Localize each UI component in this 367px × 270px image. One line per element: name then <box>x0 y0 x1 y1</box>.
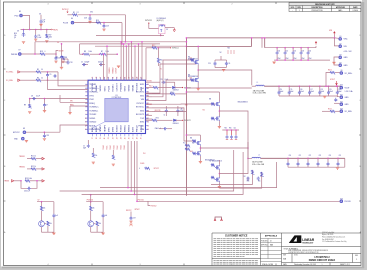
svg-text:CONVERTER WITH VERY LOW DCR IN: CONVERTER WITH VERY LOW DCR INDUCTOR <box>288 252 318 254</box>
resistor R30 below IC <box>92 153 95 158</box>
svg-text:RUN/SHDN: RUN/SHDN <box>89 129 100 131</box>
ground Q3 <box>52 233 55 235</box>
resistor R20 mode <box>62 56 65 60</box>
svg-text:100uF: 100uF <box>329 91 333 93</box>
svg-text:22uF: 22uF <box>286 58 289 60</box>
capacitor C29 PLLIN <box>103 23 105 25</box>
svg-text:C13: C13 <box>208 63 211 65</box>
wire D1 bottom to bus <box>160 34 162 36</box>
svg-text:DESCRIPTION: DESCRIPTION <box>312 7 324 9</box>
wire bg1 <box>152 80 194 101</box>
svg-text:CMDSH-3: CMDSH-3 <box>173 123 179 125</box>
svg-text:INTVCC: INTVCC <box>154 168 159 170</box>
ground bank2 <box>336 168 339 170</box>
wire bank2 bottom rail <box>288 166 345 168</box>
mosfet M7 <box>211 164 214 167</box>
svg-text:5V: 5V <box>166 29 168 31</box>
capacitor CB6 <box>337 158 339 160</box>
svg-text:3: 3 <box>140 264 141 266</box>
svg-text:30: 30 <box>104 137 106 139</box>
wire VIN bank bottom rail <box>274 59 330 61</box>
resistor M2 gate <box>191 79 194 82</box>
resistor R31 below IC <box>112 155 115 160</box>
border tick marks <box>91 2 93 266</box>
wire boost1 <box>172 81 175 83</box>
svg-text:31: 31 <box>108 137 110 139</box>
svg-text:100uF: 100uF <box>280 91 284 93</box>
svg-text:10k: 10k <box>99 223 102 225</box>
net flag INTVCC1 <box>148 23 149 24</box>
svg-text:C2: C2 <box>164 114 166 116</box>
capacitor C33 extvcc <box>43 132 45 134</box>
svg-text:E6: E6 <box>71 18 73 20</box>
capacitor C12 above IC <box>61 44 63 56</box>
svg-text:34: 34 <box>120 137 122 139</box>
svg-text:SHEET 1 OF 1: SHEET 1 OF 1 <box>340 264 350 266</box>
net flag VIN bank <box>315 42 317 45</box>
wire sw3 node <box>200 147 202 149</box>
svg-text:C18: C18 <box>70 62 73 64</box>
svg-text:C15: C15 <box>290 89 293 91</box>
wire pgood long <box>137 200 340 202</box>
svg-text:R23 1.00k: R23 1.00k <box>25 178 32 180</box>
wire PGOOD to RUN bus <box>23 16 30 30</box>
turret E10 VO_SNS+ <box>340 72 343 75</box>
capacitor C7 <box>44 98 46 100</box>
svg-text:PGOOD1: PGOOD1 <box>87 200 94 202</box>
svg-text:EXTVCC: EXTVCC <box>13 132 21 134</box>
svg-text:R22 1k: R22 1k <box>31 166 36 168</box>
svg-text:1uF: 1uF <box>105 215 108 217</box>
svg-text:VOSNS2-: VOSNS2- <box>89 110 98 112</box>
svg-text:SNSD1: SNSD1 <box>100 84 102 92</box>
svg-text:SGND4: SGND4 <box>141 124 143 132</box>
svg-text:BOOST2: BOOST2 <box>147 104 153 106</box>
svg-text:C5: C5 <box>81 62 83 64</box>
capacitor C38 vout <box>334 102 340 104</box>
wire box right vertical <box>261 38 263 48</box>
svg-text:PGOOD1: PGOOD1 <box>138 199 144 201</box>
svg-text:VOSNS1-: VOSNS1- <box>89 92 98 94</box>
resistor M3 gate <box>211 103 214 106</box>
turret E7 MODE <box>19 53 22 56</box>
svg-text:JK: JK <box>270 240 272 242</box>
svg-text:INTVCC: INTVCC <box>62 9 69 11</box>
ground R17 <box>45 41 48 43</box>
svg-text:C26: C26 <box>38 35 41 37</box>
svg-text:C30: C30 <box>278 51 281 53</box>
wire L1 out rail <box>252 85 256 87</box>
svg-text:C21: C21 <box>299 155 302 157</box>
resistor Q3 base <box>44 223 46 225</box>
svg-text:SNSD2: SNSD2 <box>129 84 131 92</box>
svg-text:GND: GND <box>344 57 349 59</box>
svg-text:PGOOD2: PGOOD2 <box>137 82 139 91</box>
wire ITH row <box>60 101 88 103</box>
svg-text:SIZE: SIZE <box>283 255 286 257</box>
svg-text:INTVCC1: INTVCC1 <box>145 20 152 22</box>
svg-text:VOSNS2+: VOSNS2+ <box>89 107 99 109</box>
turret E15 PGOOD <box>340 200 343 203</box>
svg-text:C32: C32 <box>294 51 297 53</box>
wire vosns+ row <box>20 71 36 73</box>
svg-text:35: 35 <box>124 137 126 139</box>
resistor Q3 collector <box>41 202 43 207</box>
svg-text:ITEMP2: ITEMP2 <box>104 124 106 132</box>
wire verticals from top rail <box>124 15 126 42</box>
ground cout bank <box>323 96 326 98</box>
capacitor CB1 <box>287 158 289 160</box>
capacitor C28 <box>89 15 91 17</box>
resistor R9 freq <box>29 98 31 100</box>
svg-text:10k: 10k <box>43 208 46 210</box>
svg-text:39: 39 <box>141 137 143 139</box>
wire IC right connections <box>146 92 153 94</box>
svg-text:TKSS3: TKSS3 <box>114 145 116 149</box>
turret E2 VIN <box>334 38 338 46</box>
svg-text:C23: C23 <box>319 155 322 157</box>
svg-text:C34 1uF: C34 1uF <box>24 191 30 193</box>
svg-text:E16: E16 <box>340 198 343 200</box>
svg-text:C16: C16 <box>300 89 303 91</box>
svg-text:SGND: SGND <box>140 163 144 165</box>
turret E13 GND <box>340 103 343 106</box>
svg-text:E3: E3 <box>340 55 342 57</box>
diode D2 CMDSH-3 <box>173 86 176 88</box>
svg-text:15k: 15k <box>95 155 97 157</box>
capacitor CIN2 <box>284 47 286 49</box>
svg-text:R15: R15 <box>225 128 228 130</box>
svg-text:E13: E13 <box>340 108 343 110</box>
turret E14 VO_SNS- <box>340 110 343 113</box>
svg-text:TRKSS: TRKSS <box>4 181 9 183</box>
svg-text:ITH1: ITH1 <box>70 101 73 103</box>
svg-text:R26 0: R26 0 <box>328 70 332 72</box>
wire sw2 <box>152 103 215 105</box>
svg-text:BSC010NE2LSI: BSC010NE2LSI <box>188 76 199 78</box>
svg-text:R13: R13 <box>228 48 231 50</box>
wire inner rail y46.4 <box>186 45 251 47</box>
svg-text:C17: C17 <box>310 89 313 91</box>
svg-text:GND: GND <box>345 97 350 99</box>
svg-text:PGOOD2: PGOOD2 <box>112 67 114 73</box>
svg-text:10: 10 <box>41 77 43 79</box>
capacitor C8 freq <box>30 98 88 100</box>
svg-text:0.1uF: 0.1uF <box>36 96 40 98</box>
svg-text:C19: C19 <box>329 89 332 91</box>
wire fet chain3 <box>199 135 201 140</box>
svg-text:4.5V - 14V: 4.5V - 14V <box>344 51 353 53</box>
svg-text:C22: C22 <box>234 128 237 130</box>
svg-text:R3 2: R3 2 <box>152 45 155 47</box>
svg-text:SWEN2: SWEN2 <box>129 124 131 132</box>
wire D1 out <box>165 27 172 29</box>
svg-text:100uF: 100uF <box>338 91 342 93</box>
wire VIN top rail <box>186 37 335 39</box>
svg-text:28: 28 <box>96 137 98 139</box>
resistor R27 <box>330 110 335 113</box>
svg-text:VO_SNS+: VO_SNS+ <box>345 73 353 75</box>
svg-text:SWEN1: SWEN1 <box>125 124 127 132</box>
svg-text:E9: E9 <box>341 70 343 72</box>
ground E9 <box>25 140 28 142</box>
svg-text:E4: E4 <box>340 62 342 64</box>
svg-text:R24: R24 <box>247 180 250 182</box>
svg-text:R27 0: R27 0 <box>328 108 332 110</box>
wire long bus 2 <box>82 152 244 194</box>
wire bg2 <box>152 111 186 113</box>
capacitor C26 <box>35 30 37 35</box>
wire Q3 bottom <box>41 227 43 233</box>
svg-text:E7: E7 <box>19 50 21 52</box>
wire nest corner 1 <box>211 170 252 185</box>
wire extvcc <box>26 131 60 133</box>
resistor R18 MODE <box>21 53 40 55</box>
svg-text:TKSS0: TKSS0 <box>103 145 105 149</box>
ground above IC <box>117 66 120 68</box>
wire VIN bank top rail <box>265 47 316 49</box>
svg-text:10k: 10k <box>49 223 52 225</box>
svg-text:PGOOD1: PGOOD1 <box>109 67 111 73</box>
turret E3 GND <box>339 56 342 59</box>
wire cout bank bottom rail <box>279 95 337 97</box>
svg-text:2: 2 <box>232 264 233 266</box>
capacitor C34 loop <box>21 181 27 189</box>
wire left rail vertical <box>185 38 187 196</box>
mosfet M4 <box>215 116 219 121</box>
svg-text:VO_SNS-: VO_SNS- <box>6 80 13 82</box>
output arrow row3 <box>42 180 44 182</box>
wire long bus 3 <box>100 162 277 188</box>
svg-text:ITH: ITH <box>143 153 145 155</box>
capacitor C32 mode <box>55 54 57 57</box>
svg-text:0.1uF: 0.1uF <box>38 37 42 39</box>
svg-text:INTVCC: INTVCC <box>135 209 140 211</box>
svg-text:C12: C12 <box>56 57 59 59</box>
svg-text:R9: R9 <box>24 105 26 107</box>
capacitor C9 <box>47 71 49 73</box>
svg-text:LTC3877EUJ: LTC3877EUJ <box>112 97 122 99</box>
svg-text:C28: C28 <box>84 18 87 20</box>
turret E4 GND <box>339 64 342 67</box>
svg-text:R10: R10 <box>160 60 163 62</box>
mid resistor stack right <box>185 145 190 148</box>
wire RUN bus <box>21 29 52 31</box>
wire Q4 bottom <box>90 227 92 233</box>
svg-text:TG2: TG2 <box>202 110 205 112</box>
resistor R23 <box>25 180 30 183</box>
svg-text:PRODUCTION: PRODUCTION <box>312 10 324 12</box>
svg-text:29: 29 <box>100 137 102 139</box>
svg-text:C7: C7 <box>46 105 48 107</box>
svg-text:100uF: 100uF <box>310 91 314 93</box>
svg-text:TECHNOLOGY: TECHNOLOGY <box>302 243 313 245</box>
Linear Technology logo <box>289 235 302 243</box>
svg-text:E2: E2 <box>340 43 342 45</box>
svg-text:33: 33 <box>116 137 118 139</box>
resistor R22 <box>31 168 36 171</box>
svg-text:SGND2: SGND2 <box>89 122 97 124</box>
svg-text:10k: 10k <box>92 208 95 210</box>
svg-text:E12: E12 <box>340 101 343 103</box>
capacitor CB4 <box>317 158 319 160</box>
resistor R10 vertical <box>158 47 160 49</box>
svg-text:SW2: SW2 <box>185 105 188 107</box>
wire nest corner 2 <box>220 172 262 188</box>
svg-text:R1: R1 <box>73 12 75 14</box>
turret E9 GND <box>22 137 25 140</box>
svg-text:R21 1k: R21 1k <box>31 156 36 158</box>
wire extvcc to IC <box>60 125 88 132</box>
svg-text:M7 BSC010NE2LSI: M7 BSC010NE2LSI <box>210 161 223 163</box>
svg-text:L2: L2 <box>258 154 260 156</box>
diode D3 CMDSH-3 <box>174 119 177 121</box>
svg-text:VIN: VIN <box>141 99 145 101</box>
svg-text:1000pF: 1000pF <box>85 62 90 64</box>
U1 exposed pad <box>105 98 128 121</box>
wire sw1 node to L1 <box>197 69 199 71</box>
capacitor Q4 rail <box>102 202 104 215</box>
svg-text:C20: C20 <box>289 155 292 157</box>
capacitor CIN3 <box>292 47 294 49</box>
svg-text:TRKSS1: TRKSS1 <box>19 156 25 158</box>
capacitor COUT6 <box>328 85 330 87</box>
svg-text:1uF: 1uF <box>56 215 59 217</box>
svg-text:1.5V / 10A: 1.5V / 10A <box>345 90 354 93</box>
svg-text:10k: 10k <box>14 35 17 37</box>
wire tg2 <box>152 108 196 141</box>
svg-text:R6: R6 <box>37 77 39 79</box>
svg-text:BSC050NE2LS: BSC050NE2LS <box>188 58 198 60</box>
svg-text:VO_SNS-: VO_SNS- <box>345 111 353 113</box>
svg-text:DEMO CIRCUIT 2032A: DEMO CIRCUIT 2032A <box>309 259 336 262</box>
wire VIN bank right vertical <box>315 46 317 48</box>
svg-text:22uF: 22uF <box>278 58 281 60</box>
svg-text:SNSA1: SNSA1 <box>95 84 98 91</box>
wire bus y35.4 <box>96 34 164 36</box>
capacitor C5 1000pF <box>82 64 88 66</box>
svg-text:DTR2: DTR2 <box>112 126 114 132</box>
wire vosns- to IC stub <box>48 80 89 89</box>
resistor R1 2.2 <box>68 14 73 16</box>
wire fet chain4 <box>218 160 220 165</box>
svg-text:R17: R17 <box>49 35 52 37</box>
wire IC bottom drops <box>127 141 129 188</box>
ground symbol top-left <box>39 24 42 26</box>
svg-text:M1: M1 <box>188 57 190 59</box>
mosfet M2 <box>194 77 198 82</box>
output arrow row2 <box>42 168 44 170</box>
wire bus above IC y46.2 <box>95 45 186 47</box>
svg-text:4: 4 <box>48 264 49 266</box>
svg-text:100uF: 100uF <box>290 91 294 93</box>
wire vosns- row <box>20 79 36 81</box>
capacitor CIN4 <box>300 47 302 49</box>
resistor R7 100k <box>100 53 106 56</box>
wire Q4 feed <box>90 195 92 202</box>
svg-text:10: 10 <box>41 69 43 71</box>
svg-text:U1: U1 <box>115 95 117 97</box>
ground Q5 <box>22 42 25 44</box>
wire fet chain2 <box>218 95 220 101</box>
svg-text:5V: 5V <box>38 200 40 202</box>
svg-text:33pF: 33pF <box>83 147 86 149</box>
svg-text:R4 0: R4 0 <box>156 118 159 120</box>
svg-text:M5: M5 <box>190 138 192 140</box>
svg-text:SNS1: SNS1 <box>104 85 106 91</box>
wire pgnd rail y88 <box>186 87 251 89</box>
svg-text:R25: R25 <box>258 180 261 182</box>
capacitor COUT5 <box>319 85 321 87</box>
turret E11 VOUT <box>340 86 343 89</box>
wire bus above IC y41.8 <box>35 41 186 43</box>
svg-text:INTVCC2: INTVCC2 <box>184 120 191 122</box>
op-amp U1 LTC3877EUJ outline <box>88 80 146 133</box>
capacitor CIN1 <box>276 47 278 49</box>
capacitor C24 C25 <box>247 177 249 181</box>
resistor R25 <box>261 172 264 177</box>
svg-text:M3: M3 <box>209 99 211 101</box>
svg-text:CLKOUT: CLKOUT <box>116 68 118 74</box>
svg-text:C25: C25 <box>339 155 342 157</box>
resistor R6 <box>36 79 41 82</box>
svg-text:36: 36 <box>129 137 131 139</box>
wire R8 feed <box>79 44 81 54</box>
svg-text:PGOOD: PGOOD <box>345 201 352 203</box>
svg-text:FREQ: FREQ <box>70 104 74 106</box>
svg-text:R11: R11 <box>183 143 186 145</box>
capacitor CB2 <box>297 158 299 160</box>
svg-text:TK/SS2: TK/SS2 <box>89 114 97 116</box>
wire bus left drop <box>34 42 36 54</box>
ground input bank <box>272 62 275 64</box>
svg-text:4: 4 <box>48 4 49 6</box>
svg-text:DTR1: DTR1 <box>108 126 110 132</box>
svg-text:PMODE: PMODE <box>11 54 18 56</box>
svg-text:ITEMP1: ITEMP1 <box>100 124 102 132</box>
svg-text:E11: E11 <box>340 94 343 96</box>
svg-text:TKSS2: TKSS2 <box>110 145 112 149</box>
svg-text:1: 1 <box>299 10 300 12</box>
svg-text:ILIM2: ILIM2 <box>133 126 135 132</box>
wire tg1 <box>152 60 194 97</box>
svg-text:R12: R12 <box>192 143 195 145</box>
capacitor COUT1 <box>278 85 280 87</box>
svg-text:FREQ: FREQ <box>89 103 95 105</box>
resistor Q4 base <box>94 223 96 225</box>
svg-text:27: 27 <box>92 137 94 139</box>
svg-text:TKSS5: TKSS5 <box>121 145 123 149</box>
ground Q4 <box>101 233 104 235</box>
svg-text:C6: C6 <box>83 146 85 148</box>
svg-text:C6: C6 <box>228 63 230 65</box>
capacitor COUT3 <box>299 85 301 87</box>
ground 5V cluster <box>222 69 225 71</box>
resistor M6 gate <box>193 152 196 155</box>
wire vosns+ to IC <box>58 72 88 86</box>
svg-text:MODE1: MODE1 <box>112 83 114 91</box>
mosfet M1 <box>194 60 198 65</box>
svg-text:R16: R16 <box>14 33 17 35</box>
resistor R14 above IC <box>62 61 69 63</box>
red arrow INTVCC down <box>173 28 175 32</box>
svg-text:Q5: Q5 <box>14 37 16 39</box>
svg-text:PGND2: PGND2 <box>121 124 123 132</box>
svg-text:C33: C33 <box>46 135 49 137</box>
capacitor Q3 rail <box>53 202 55 215</box>
svg-text:C18: C18 <box>320 89 323 91</box>
svg-text:C110: C110 <box>338 89 341 91</box>
